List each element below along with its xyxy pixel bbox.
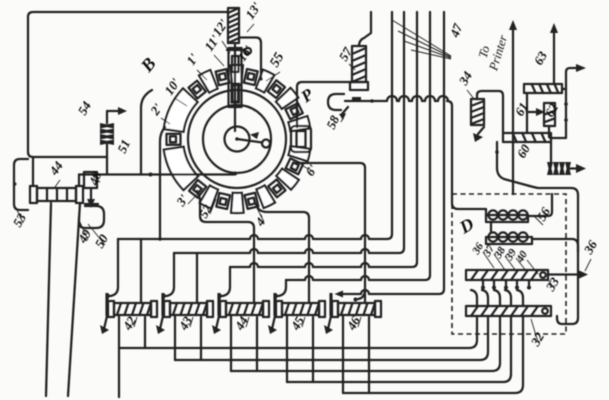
coil 34 armature arrow — [473, 127, 484, 142]
label 47 leaders — [392, 20, 451, 59]
label leader lines — [17, 24, 591, 342]
distributor circle r34 — [203, 105, 271, 173]
dashed box D — [452, 194, 566, 334]
contact bar 33 — [466, 270, 548, 280]
relay 44 left lead — [32, 157, 34, 186]
coil 34 top loop — [477, 91, 503, 133]
arrow 61 — [528, 108, 545, 116]
wire bar33 to arrow 36 — [548, 270, 588, 279]
distributor circle r49 — [188, 90, 286, 188]
coil 56 upper — [486, 210, 528, 222]
resistor 62 — [544, 103, 555, 126]
coil 54 — [100, 123, 114, 145]
contact springs 36-40 — [471, 280, 531, 306]
wire P riser — [297, 82, 352, 127]
wire 58 contact line — [345, 96, 452, 198]
bus junction dots — [158, 237, 162, 241]
bus wire 51 — [79, 172, 237, 177]
relay 44 right lead — [78, 175, 80, 187]
armature arrow 48 — [85, 188, 98, 208]
armature hook 58 — [328, 94, 348, 120]
wire to terminal 36 — [557, 195, 578, 324]
contact block P — [291, 126, 311, 152]
brush arm — [237, 132, 270, 148]
brush rod — [234, 43, 236, 131]
wire segment 3 drop — [197, 191, 254, 303]
under-coil return buses — [119, 315, 523, 397]
coil 57 — [350, 46, 368, 90]
resistor 60 — [503, 133, 551, 142]
wire 63 left drop — [526, 93, 528, 133]
relay 44 coil legs — [46, 203, 80, 396]
armature bracket 53 — [14, 159, 29, 210]
wire segment 5 drop — [256, 204, 309, 303]
wire 62 drop — [549, 126, 566, 138]
relay coil 44 — [30, 186, 83, 203]
coil 54 bottom lead — [106, 144, 108, 174]
relay coils 42-46 — [100, 293, 381, 334]
wire 63-60 right vertical — [564, 89, 568, 137]
battery arrow — [568, 164, 586, 173]
wire 63 riser arrow — [550, 23, 558, 84]
distributor hub — [225, 127, 250, 152]
wire 60 to 36 line — [495, 142, 578, 195]
to printer text — [476, 33, 510, 73]
brush pivot bar — [227, 48, 251, 54]
wire brush to 55 — [239, 38, 263, 81]
cable bundle and buses — [118, 12, 444, 298]
coil 57 top lead — [359, 12, 371, 46]
wire top-left — [28, 12, 228, 157]
to printer wire — [509, 20, 517, 194]
contact tick 58 — [352, 97, 361, 101]
wire segment 10 drop — [141, 90, 152, 175]
battery zigzag — [547, 142, 571, 175]
wire segment 6 drop — [295, 161, 365, 303]
wire segment 2 drop — [160, 127, 165, 239]
contact bar 32 — [466, 306, 551, 316]
brush winding — [228, 8, 239, 43]
coil 54 top lead with arrow — [107, 107, 127, 123]
contact block 48 — [84, 172, 97, 188]
armature hook 49 50 — [79, 206, 104, 228]
distributor terminal blocks — [166, 69, 303, 209]
distributor segment ring — [164, 65, 311, 213]
relay feed drops — [106, 239, 286, 303]
coil 56 lower lead right — [532, 239, 578, 252]
resistor 63 — [524, 84, 562, 93]
coil 56 lower — [486, 232, 532, 244]
brush holder — [229, 48, 242, 107]
coil 56 link — [490, 222, 492, 233]
coil 34 — [471, 99, 484, 125]
coil 56 upper leads — [452, 194, 552, 216]
wire 63 right link — [562, 64, 586, 89]
